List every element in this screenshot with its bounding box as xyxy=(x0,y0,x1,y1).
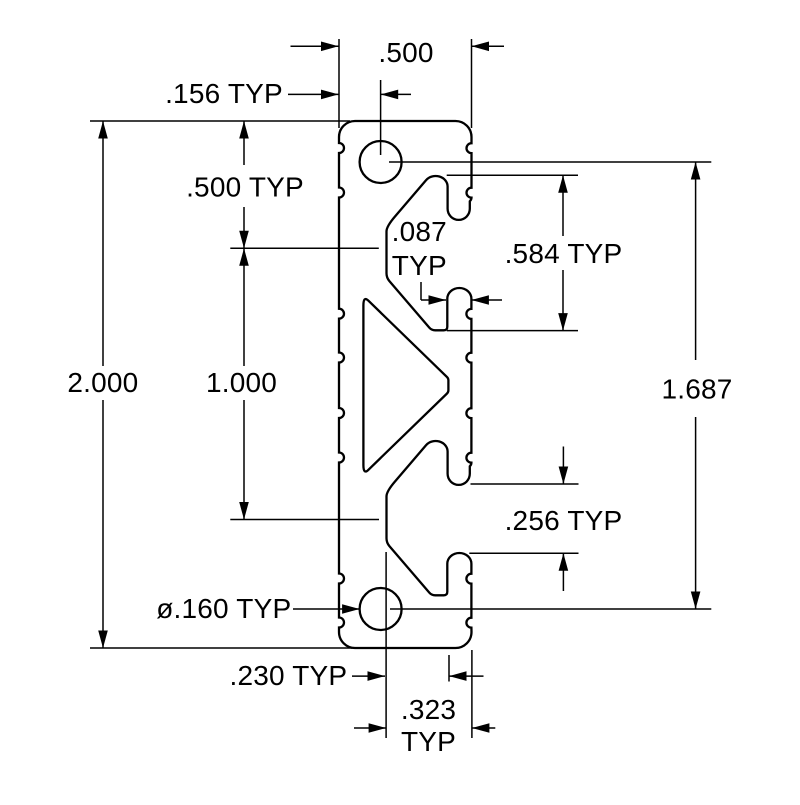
dimension .156 TYP arrows xyxy=(288,93,339,95)
dimension .500 TYP / 1.000 line and arrows xyxy=(243,121,245,520)
leader .087 TYP xyxy=(420,282,422,300)
extension line .230 right xyxy=(448,655,450,682)
leader diameter .160 xyxy=(293,608,360,610)
extension line left face (up) xyxy=(338,39,340,128)
centerline hole H1 horizontal xyxy=(389,161,711,163)
hole H2 (diameter .160) xyxy=(360,588,402,630)
dimension .500 arrows xyxy=(291,45,339,47)
centerline hole H2 horizontal xyxy=(390,608,711,610)
svg-text:.256 TYP: .256 TYP xyxy=(505,505,623,536)
svg-text:.230 TYP: .230 TYP xyxy=(229,660,347,691)
centerline slot S2 xyxy=(230,519,379,521)
extension line top edge xyxy=(90,120,350,122)
svg-text:.500: .500 xyxy=(378,37,433,68)
triangle cavity xyxy=(363,299,448,471)
dimension .230 TYP arrows xyxy=(352,675,385,677)
centerline slot S1 xyxy=(230,247,378,249)
svg-text:TYP: TYP xyxy=(392,250,447,281)
svg-text:.584 TYP: .584 TYP xyxy=(505,238,623,269)
extension line .256 bottom xyxy=(469,552,578,554)
hole H1 (diameter .160) xyxy=(360,141,402,183)
profile outline xyxy=(339,121,472,648)
svg-text:.323: .323 xyxy=(401,694,456,725)
dimension .323 TYP arrows xyxy=(354,727,386,729)
dimension 2.000 line and arrows xyxy=(102,121,104,648)
dimension .584 TYP line and arrows xyxy=(562,175,564,330)
svg-text:ø.160 TYP: ø.160 TYP xyxy=(156,593,291,624)
extension line .256 top xyxy=(471,483,579,485)
svg-text:2.000: 2.000 xyxy=(67,367,138,398)
svg-text:1.687: 1.687 xyxy=(661,374,732,405)
extension line .230/.323 left xyxy=(385,552,387,738)
extension line .584 top xyxy=(447,174,578,176)
svg-text:TYP: TYP xyxy=(401,726,456,757)
dimension .256 TYP arrows xyxy=(562,447,564,485)
centerline hole H1 vertical xyxy=(380,80,382,155)
dimension 1.687 line and arrows xyxy=(695,162,697,609)
svg-text:1.000: 1.000 xyxy=(206,367,277,398)
extension line .584 bottom xyxy=(447,330,578,332)
extension line right face (up) xyxy=(471,39,473,128)
svg-text:.156 TYP: .156 TYP xyxy=(165,78,283,109)
extension line bottom edge xyxy=(90,647,352,649)
svg-text:.500 TYP: .500 TYP xyxy=(186,172,304,203)
svg-text:.087: .087 xyxy=(392,216,447,247)
extension line .323 right xyxy=(471,650,473,738)
